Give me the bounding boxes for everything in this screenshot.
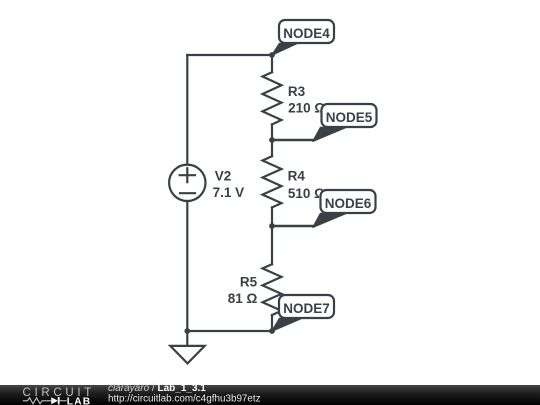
CircuitLab logo	[23, 387, 96, 405]
wire NODE5 leader	[272, 139, 314, 142]
svg-text:clarayaro / Lab_1_3.1: clarayaro / Lab_1_3.1	[108, 383, 206, 394]
svg-text:81 Ω: 81 Ω	[228, 291, 258, 306]
label R3 value	[288, 84, 325, 116]
label V2 value	[213, 169, 245, 200]
resistor R4	[263, 156, 282, 207]
footer bar	[0, 385, 540, 405]
ground	[170, 346, 204, 364]
svg-text:210 Ω: 210 Ω	[288, 101, 325, 116]
svg-text:NODE5: NODE5	[326, 110, 373, 125]
wire right vertical seg1	[271, 55, 273, 72]
svg-text:http://circuitlab.com/c4gfhu3b: http://circuitlab.com/c4gfhu3b97etz	[108, 394, 261, 405]
svg-text:V2: V2	[215, 169, 232, 184]
resistor R5	[263, 264, 282, 315]
voltage source V2	[169, 165, 205, 201]
label R4 value	[288, 169, 326, 202]
node NODE7 flag	[272, 295, 334, 331]
resistor R3	[263, 72, 282, 124]
node NODE7 junction dot	[269, 328, 275, 334]
wire right vertical seg4	[271, 315, 273, 331]
node NODE6 flag	[313, 190, 376, 227]
wire left vertical lower	[186, 201, 188, 331]
node NODE5 junction dot	[269, 137, 275, 143]
node NODE5 flag	[313, 104, 377, 141]
wire right vertical seg3	[271, 207, 273, 264]
wire left vertical upper	[186, 55, 188, 165]
label R5 value	[228, 275, 258, 306]
svg-text:R5: R5	[240, 275, 258, 290]
node junction dot bottom-left	[184, 328, 190, 334]
wire NODE6 leader	[272, 225, 314, 228]
svg-text:NODE4: NODE4	[283, 26, 330, 41]
svg-text:LAB: LAB	[67, 397, 92, 405]
node NODE4 flag	[272, 20, 334, 55]
wire ground stub	[186, 331, 188, 346]
footer title text	[108, 383, 261, 405]
node NODE6 junction dot	[269, 223, 275, 229]
svg-text:R4: R4	[288, 169, 306, 184]
svg-text:R3: R3	[288, 84, 306, 99]
svg-text:7.1 V: 7.1 V	[213, 185, 245, 200]
wire right vertical seg2	[271, 124, 273, 156]
svg-text:NODE7: NODE7	[283, 301, 330, 316]
wire bottom horizontal	[187, 330, 272, 332]
svg-text:NODE6: NODE6	[325, 196, 372, 211]
node NODE4 junction dot	[269, 52, 275, 58]
wire top horizontal	[187, 54, 272, 56]
